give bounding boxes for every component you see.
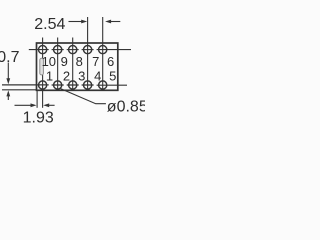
node top row centerline right extension — [97, 49, 131, 51]
svg-text:10: 10 — [42, 54, 56, 69]
svg-text:2.54: 2.54 — [34, 16, 65, 33]
hole pad pin 6 — [99, 46, 107, 54]
svg-text:1: 1 — [46, 68, 53, 83]
dimension 2.54 dimension line left arrow — [69, 20, 88, 24]
svg-text:ø0.85: ø0.85 — [107, 98, 145, 115]
dimension 2.54 dimension line right arrow — [105, 20, 120, 24]
leader line for hole diameter 0.85 — [60, 89, 106, 104]
dimension 0.7 up arrow — [6, 90, 10, 100]
dimension 1.93 right arrow — [43, 103, 54, 107]
package body outline — [37, 43, 118, 90]
dimension 1.93 left extension line (body edge) — [36, 91, 38, 108]
hole pad pin 3 — [67, 81, 79, 89]
hole pad pin 1 — [39, 81, 47, 89]
hole pad pin 7 — [82, 46, 94, 54]
wire column line pin6-pin5, 2.54 extension — [102, 17, 104, 91]
node bottom row centerline right extension — [97, 84, 127, 86]
hole pad pin 8 — [67, 46, 79, 54]
node bottom row centerline left extension, 0.7 upper extension — [2, 84, 49, 86]
dimension 0.7 down arrow — [6, 63, 10, 85]
wire column line pin7-pin4, 2.54 extension — [87, 17, 89, 91]
svg-text:8: 8 — [76, 54, 83, 69]
wire column line pin10-pin1 — [42, 38, 44, 108]
hole pad pin 2 — [52, 81, 64, 89]
polarity slot mark — [40, 58, 44, 75]
wire column line pin8-pin3 — [72, 38, 74, 91]
hole pad pin 10 — [39, 46, 47, 54]
svg-text:2: 2 — [63, 68, 70, 83]
svg-text:4: 4 — [94, 68, 101, 83]
svg-text:7: 7 — [92, 54, 99, 69]
svg-text:3: 3 — [78, 68, 85, 83]
svg-text:1.93: 1.93 — [23, 109, 54, 126]
svg-text:6: 6 — [107, 54, 114, 69]
svg-text:9: 9 — [61, 54, 68, 69]
wire body bottom edge left extension, 0.7 lower extension — [2, 89, 37, 91]
node top row centerline left extension — [29, 49, 49, 51]
hole pad pin 5 — [99, 81, 107, 89]
hole pad pin 9 — [52, 46, 64, 54]
svg-text:0.7: 0.7 — [0, 49, 20, 66]
wire column line pin9-pin2 — [57, 38, 59, 91]
dimension 1.93 left arrow — [15, 103, 37, 107]
hole pad pin 4 — [82, 81, 94, 89]
svg-text:5: 5 — [109, 68, 116, 83]
